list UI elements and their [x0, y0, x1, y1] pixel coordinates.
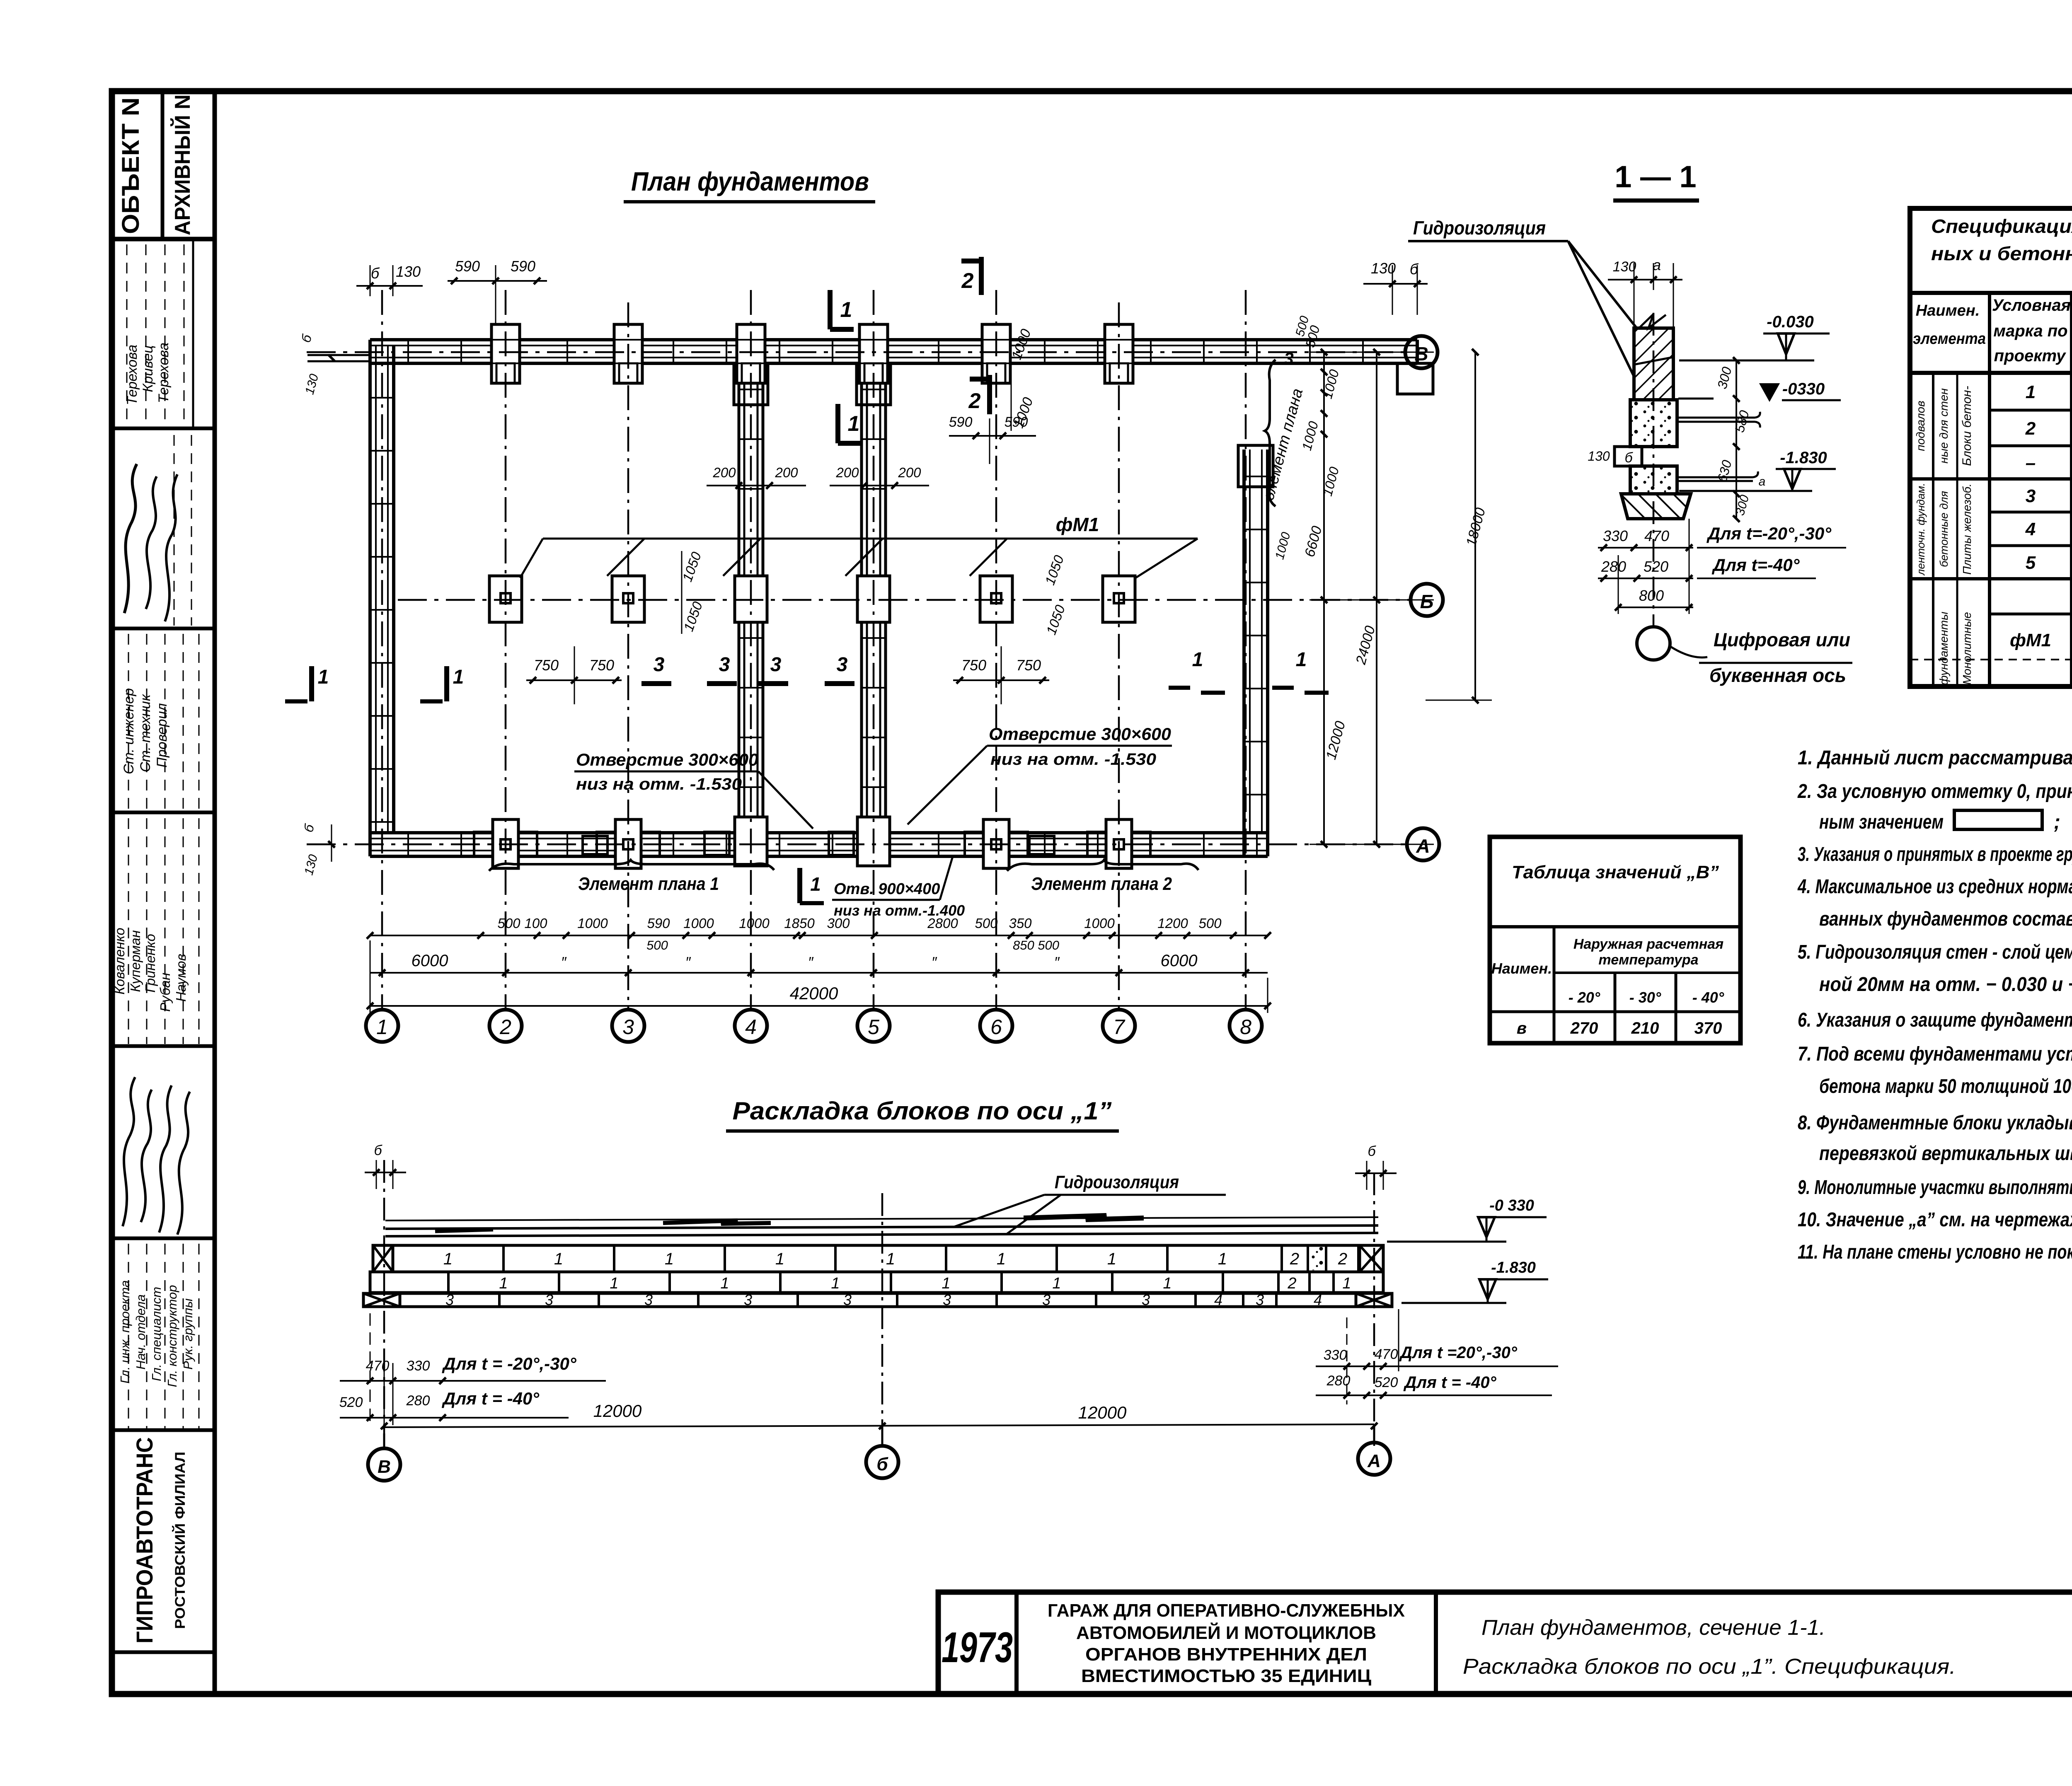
svg-text:1: 1: [1052, 1275, 1061, 1292]
svg-text:3: 3: [1284, 349, 1293, 368]
svg-text:200: 200: [775, 465, 798, 480]
plan wall footing axis B grid 5: [857, 576, 890, 622]
svg-text:520: 520: [1375, 1375, 1398, 1390]
svg-text:;: ;: [2054, 811, 2060, 833]
svg-text:10. Значение „а” см. на черт: 10. Значение „а” см. на чертежах марки А…: [1798, 1209, 2072, 1231]
svg-text:3: 3: [545, 1291, 553, 1308]
svg-text:Отверстие 300×600: Отверстие 300×600: [576, 750, 758, 769]
stamp box signatures names 1: [112, 427, 215, 430]
plan section marks 1-1 left interior: [309, 666, 314, 701]
svg-text:а: а: [1759, 475, 1766, 488]
stamp box handwritten signatures 2: [112, 1237, 215, 1240]
section bottom dim 280 520: [1598, 578, 1693, 579]
plan section mark 1 lower: [835, 404, 840, 443]
svg-text:б: б: [374, 1143, 382, 1158]
svg-text:Раскладка блоков по оси: Раскладка блоков по оси „1”: [733, 1097, 1112, 1125]
section wall break mark: [1639, 314, 1666, 328]
svg-text:марка по: марка по: [1993, 322, 2067, 340]
svg-text:590: 590: [511, 258, 535, 275]
svg-text:бетона марки 50 толщиной 1: бетона марки 50 толщиной 100мм;: [1819, 1075, 2072, 1097]
svg-text:4: 4: [1314, 1291, 1322, 1308]
svg-text:- 40°: - 40°: [1692, 989, 1724, 1006]
svg-text:Терехова: Терехова: [124, 345, 140, 405]
svg-text:330: 330: [407, 1358, 430, 1374]
elevation row3 X-box right: [1356, 1293, 1392, 1307]
stamp box handwritten signatures 1: [112, 627, 215, 631]
elevation row3 slabs: [363, 1293, 1392, 1307]
svg-text:ВМЕСТИМОСТЬЮ 35 ЕДИНИЦ: ВМЕСТИМОСТЬЮ 35 ЕДИНИЦ: [1081, 1666, 1371, 1686]
plan interior wall 5 bottom footing: [857, 817, 890, 866]
plan letter circle A: [1407, 828, 1439, 860]
svg-text:130: 130: [1613, 259, 1636, 275]
plan interior wall 4 top footing: [734, 363, 768, 405]
svg-text:3: 3: [744, 1291, 752, 1308]
svg-text:-0.030: -0.030: [1767, 313, 1813, 331]
svg-text:1: 1: [942, 1275, 950, 1292]
svg-text:1000: 1000: [1084, 916, 1115, 931]
section bottom dim 330 470: [1598, 547, 1693, 549]
svg-text:4: 4: [1214, 1291, 1222, 1308]
elevation circle B: [866, 1446, 898, 1478]
section wall hatched block: [1634, 328, 1673, 400]
svg-text:750: 750: [534, 657, 559, 674]
svg-text:330: 330: [1324, 1347, 1347, 1363]
spec table row lines: [1990, 409, 2072, 412]
plan grid axis dash-dot lines 1-8: [381, 290, 383, 1010]
elevation axis V dashed: [383, 1160, 385, 1446]
svg-text:1: 1: [2026, 382, 2036, 402]
svg-text:1: 1: [997, 1250, 1006, 1268]
svg-text:1: 1: [1342, 1275, 1351, 1292]
svg-text:1000: 1000: [577, 916, 608, 931]
spec table dashed line in fM1 row: [1910, 659, 2072, 660]
title block cell 1973: [1014, 1592, 1019, 1694]
svg-text:500: 500: [646, 938, 668, 952]
plan brace element plana 1: [489, 860, 774, 871]
svg-text:1: 1: [376, 1015, 388, 1039]
svg-text:В: В: [1414, 343, 1428, 365]
svg-text:б: б: [371, 265, 380, 282]
plan grid circles 1-8: [366, 1010, 398, 1042]
svg-text:ным значением: ным значением: [1819, 811, 1944, 833]
plan corner protrusion left of axis V: [307, 354, 370, 356]
svg-text:3: 3: [1042, 1291, 1051, 1308]
section axis line: [1653, 313, 1655, 626]
elevation row1 blocks: [373, 1245, 1383, 1272]
stamp box role labels 1: [112, 811, 215, 814]
plan letter circle B: [1411, 584, 1443, 616]
svg-text:1: 1: [443, 1250, 453, 1268]
svg-text:2: 2: [499, 1015, 511, 1039]
plan letter circle V: [1405, 336, 1438, 368]
svg-text:Таблица значений „В”: Таблица значений „В”: [1512, 862, 1719, 882]
svg-text:520: 520: [1644, 558, 1668, 575]
svg-text:2: 2: [1287, 1275, 1296, 1292]
svg-text:Для t = -40°: Для t = -40°: [1403, 1373, 1496, 1392]
plan brace element plana 3 vertical: [1265, 360, 1276, 506]
svg-text:Раскладка блоков по оси „1”: Раскладка блоков по оси „1”. Спецификаци…: [1463, 1655, 1956, 1679]
svg-text:1: 1: [840, 298, 852, 322]
plan left wall along axis 1: [368, 340, 372, 856]
svg-text:элемента: элемента: [1913, 330, 1986, 348]
svg-text:3: 3: [837, 654, 848, 676]
svg-text:3: 3: [1256, 1291, 1264, 1308]
svg-text:Наружная расчетная: Наружная расчетная: [1573, 936, 1723, 952]
svg-text:280: 280: [406, 1393, 430, 1409]
svg-text:АВТОМОБИЛЕЙ И МОТОЦИКЛОВ: АВТОМОБИЛЕЙ И МОТОЦИКЛОВ: [1076, 1622, 1376, 1643]
svg-text:750: 750: [1016, 657, 1041, 674]
svg-text:подвалов: подвалов: [1914, 401, 1927, 451]
svg-text:350: 350: [1009, 916, 1032, 931]
svg-text:270: 270: [1570, 1019, 1598, 1037]
svg-text:370: 370: [1694, 1019, 1722, 1037]
section rebar hooks lower: [1677, 476, 1753, 479]
elevation row1 right small blocks: [1280, 1245, 1283, 1272]
table B values outer: [1490, 837, 1740, 1043]
svg-text:Плиты железоб.: Плиты железоб.: [1961, 483, 1973, 575]
svg-text:3: 3: [943, 1291, 951, 1308]
svg-text:Условная: Условная: [1992, 296, 2071, 314]
svg-text:2800: 2800: [927, 916, 958, 931]
section footing trapezoid: [1621, 494, 1691, 519]
plan dimension chain 42000: [370, 1005, 1268, 1007]
title block project name cell: [1434, 1592, 1438, 1694]
plan dimension chain small values: [370, 935, 1268, 936]
plan interior wall on axis 5: [860, 363, 863, 833]
svg-text:12000: 12000: [593, 1401, 642, 1421]
svg-text:1973: 1973: [942, 1624, 1013, 1672]
svg-text:1850: 1850: [784, 916, 815, 931]
plan footings middle row axis B: [489, 576, 522, 622]
svg-text:Гидроизоляция: Гидроизоляция: [1055, 1172, 1179, 1192]
table B data row: [1490, 1010, 1740, 1013]
svg-text:5: 5: [868, 1015, 879, 1039]
svg-text:590: 590: [949, 414, 973, 430]
svg-text:б: б: [1624, 450, 1633, 466]
svg-text:590: 590: [647, 916, 670, 931]
svg-text:Гриненко: Гриненко: [143, 934, 158, 993]
section rebar hooks upper: [1677, 417, 1755, 419]
plan letter axis B line: [398, 599, 1411, 601]
svg-text:520: 520: [339, 1394, 363, 1410]
svg-text:- 30°: - 30°: [1629, 989, 1661, 1006]
svg-text:Куперман: Куперман: [128, 930, 143, 992]
section right dim chain: [1736, 360, 1737, 519]
svg-text:Гл. специалист: Гл. специалист: [149, 1287, 164, 1381]
plan section mark 2 lower: [987, 375, 992, 414]
svg-text:Для t=-20°,-30°: Для t=-20°,-30°: [1706, 524, 1832, 543]
svg-text:2: 2: [2025, 418, 2036, 439]
plan section mark 1 below bottom wall: [797, 868, 802, 903]
svg-text:бетонные для: бетонные для: [1938, 491, 1950, 567]
svg-text:″: ″: [561, 954, 567, 971]
svg-text:9. Монолитные участки выполн: 9. Монолитные участки выполнять из бетон…: [1798, 1177, 2072, 1199]
svg-text:Наумов: Наумов: [173, 954, 189, 1002]
svg-text:1: 1: [848, 412, 860, 436]
svg-text:Цифровая или: Цифровая или: [1714, 629, 1850, 650]
svg-text:3: 3: [622, 1015, 634, 1039]
elevation dim 12000 left span: [384, 1424, 1374, 1427]
svg-text:Элемент плана 1: Элемент плана 1: [578, 874, 719, 894]
svg-text:500: 500: [497, 916, 520, 931]
svg-text:8. Фундаментные блоки уклады: 8. Фундаментные блоки укладываются на сл…: [1798, 1112, 2072, 1134]
svg-text:фМ1: фМ1: [1056, 514, 1099, 535]
svg-text:3. Указания о принятых в п: 3. Указания о принятых в проекте грунтов…: [1798, 843, 2072, 865]
svg-text:6000: 6000: [411, 952, 448, 970]
svg-text:ГАРАЖ ДЛЯ ОПЕРАТИВНО-СЛУЖЕБН: ГАРАЖ ДЛЯ ОПЕРАТИВНО-СЛУЖЕБНЫХ: [1048, 1600, 1405, 1621]
plan right wall along axis 8: [1242, 450, 1246, 856]
svg-text:Наимен.: Наимен.: [1916, 302, 1980, 319]
stamp column right edge: [213, 91, 217, 1694]
svg-text:″: ″: [685, 954, 691, 971]
svg-text:11. На плане стены условно: 11. На плане стены условно не показаны.: [1798, 1241, 2072, 1263]
svg-text:Элемент плана 2: Элемент плана 2: [1031, 874, 1172, 894]
spec table header grid: [1910, 291, 2072, 295]
svg-text:4. Максимальное из средних: 4. Максимальное из средних нормативных д…: [1797, 876, 2072, 898]
svg-text:б: б: [876, 1454, 888, 1474]
svg-text:ванных фундаментов составляе: ванных фундаментов составляет 1.8 кг/см …: [1819, 908, 2072, 930]
plan right wall block joints: [1244, 476, 1268, 477]
svg-text:3: 3: [2026, 486, 2036, 506]
plan brace element plana 2: [1007, 860, 1198, 871]
svg-text:3: 3: [445, 1291, 454, 1308]
plan interior wall on axis 4: [738, 363, 741, 833]
svg-text:1: 1: [886, 1250, 895, 1268]
svg-text:Гл. инж. проекта: Гл. инж. проекта: [118, 1280, 132, 1384]
spec table outer box: [1910, 208, 2072, 686]
svg-text:низ на отм. -1.530: низ на отм. -1.530: [990, 750, 1156, 769]
svg-text:ленточн. фундам.: ленточн. фундам.: [1915, 483, 1927, 576]
plan section mark 2 upper: [979, 257, 984, 295]
svg-text:Терехова: Терехова: [156, 343, 172, 403]
svg-text:ные для стен: ные для стен: [1937, 388, 1950, 464]
svg-text:2: 2: [961, 269, 974, 293]
plan wall footing axis B grid 4: [735, 576, 767, 622]
svg-text:1: 1: [831, 1275, 840, 1292]
svg-text:Наимен.: Наимен.: [1491, 960, 1552, 977]
svg-text:6000: 6000: [1161, 952, 1198, 970]
svg-text:РОСТОВСКИЙ ФИЛИАЛ: РОСТОВСКИЙ ФИЛИАЛ: [172, 1452, 188, 1629]
plan bottom wall block joints: [407, 833, 409, 856]
svg-text:ных и бетонных элементов н: ных и бетонных элементов на монтажную сх…: [1931, 243, 2072, 264]
plan top wall block joints: [407, 340, 409, 363]
svg-text:7: 7: [1113, 1015, 1126, 1039]
svg-text:План фундаментов, сечение 1-: План фундаментов, сечение 1-1.: [1481, 1616, 1825, 1640]
title block outer: [938, 1592, 2072, 1694]
section small block b: [1615, 447, 1642, 466]
svg-text:470: 470: [1375, 1346, 1398, 1362]
svg-text:Для t = -40°: Для t = -40°: [442, 1389, 540, 1408]
svg-text:5. Гидроизоляция стен - слой: 5. Гидроизоляция стен - слой цементно-пе…: [1798, 941, 2072, 963]
plan bottom footing grid 3 extra blocks: [583, 836, 608, 854]
svg-text:А: А: [1416, 835, 1430, 857]
svg-text:1 — 1: 1 — 1: [1615, 160, 1696, 194]
elevation circle A: [1358, 1443, 1390, 1475]
svg-text:-0 330: -0 330: [1489, 1197, 1534, 1214]
svg-text:470: 470: [1644, 527, 1669, 544]
section concrete block 1: [1630, 400, 1677, 447]
svg-text:фундаменты: фундаменты: [1937, 611, 1950, 685]
svg-text:3: 3: [770, 654, 782, 676]
plan right dim 24000: [1376, 352, 1377, 844]
plan bottom side blocks at wall 5: [829, 832, 854, 855]
svg-text:-0330: -0330: [1782, 380, 1825, 398]
svg-text:1. Данный лист рассматривать: 1. Данный лист рассматривать совместно с…: [1798, 747, 2072, 769]
svg-text:1: 1: [610, 1275, 618, 1292]
svg-text:АРХИВНЫЙ N: АРХИВНЫЙ N: [170, 94, 195, 235]
svg-text:Для t =20°,-30°: Для t =20°,-30°: [1399, 1344, 1518, 1362]
svg-text:750: 750: [589, 657, 614, 674]
plan footings on bottom wall grids 2-7: [493, 819, 518, 868]
elevation axis A dashed: [1373, 1172, 1375, 1446]
svg-text:1200: 1200: [1157, 916, 1188, 931]
svg-text:6: 6: [990, 1015, 1002, 1039]
svg-text:низ на отм. -1.530: низ на отм. -1.530: [576, 775, 742, 793]
svg-text:в: в: [1517, 1019, 1527, 1037]
svg-text:- 20°: - 20°: [1569, 989, 1600, 1006]
svg-text:200: 200: [835, 465, 859, 480]
plan top wall corner block right: [1397, 363, 1433, 394]
plan letter axis A line: [307, 843, 1407, 846]
elevation row1 X-box left: [373, 1245, 393, 1272]
svg-text:фМ1: фМ1: [2010, 630, 2051, 650]
svg-text:4: 4: [745, 1015, 757, 1039]
elevation hydro smudges: [663, 1220, 771, 1224]
svg-text:Ст. техник: Ст. техник: [138, 694, 153, 772]
spec table col1 group divider: [1932, 373, 1934, 686]
svg-text:б: б: [1368, 1143, 1376, 1159]
stamp box role labels 2: [112, 1428, 215, 1432]
plan fM1 leader line: [543, 538, 1160, 540]
plan bottom footing grid 6 extra blocks: [1029, 836, 1054, 854]
svg-text:280: 280: [1601, 558, 1626, 575]
svg-text:2: 2: [1290, 1250, 1299, 1268]
svg-text:В: В: [378, 1457, 391, 1477]
section concrete block 2: [1630, 466, 1677, 494]
plan top wall along axis V: [370, 338, 1417, 341]
svg-text:Блоки бетон-: Блоки бетон-: [1960, 386, 1974, 466]
plan bottom wall along axis A: [370, 831, 1268, 834]
svg-text:буквенная ось: буквенная ось: [1709, 665, 1846, 686]
svg-text:Б: Б: [1420, 591, 1434, 612]
svg-text:210: 210: [1631, 1019, 1659, 1037]
plan right wall top footing: [1238, 445, 1273, 487]
svg-text:ОРГАНОВ ВНУТРЕННИХ ДЕЛ: ОРГАНОВ ВНУТРЕННИХ ДЕЛ: [1085, 1644, 1367, 1665]
elevation hydro strip lines: [385, 1225, 1378, 1229]
svg-text:500: 500: [975, 916, 998, 931]
svg-text:Гл. конструктор: Гл. конструктор: [165, 1285, 179, 1387]
svg-text:850 500: 850 500: [1013, 938, 1059, 952]
svg-text:1000: 1000: [683, 916, 714, 931]
svg-text:590: 590: [455, 258, 480, 275]
svg-text:1: 1: [1192, 649, 1203, 671]
plan bottom side blocks at wall 4: [704, 832, 729, 855]
svg-text:″: ″: [1054, 954, 1060, 971]
svg-text:300: 300: [827, 916, 850, 931]
svg-text:8: 8: [1240, 1015, 1251, 1039]
svg-text:1: 1: [810, 873, 821, 895]
svg-text:3: 3: [843, 1291, 852, 1308]
svg-text:130: 130: [396, 263, 421, 280]
svg-text:Для t = -20°,-30°: Для t = -20°,-30°: [442, 1354, 577, 1373]
stamp box OBJEKT/ARHIV: [112, 237, 215, 242]
svg-text:200: 200: [898, 465, 921, 480]
svg-text:Отв. 900×400: Отв. 900×400: [834, 880, 940, 898]
section axis circle: [1637, 627, 1670, 660]
elevation row1 X-box right: [1360, 1245, 1383, 1272]
svg-text:500: 500: [1198, 916, 1222, 931]
table B header: [1553, 927, 1556, 1043]
svg-text:–: –: [2026, 453, 2036, 473]
elevation axis B dashed: [881, 1193, 884, 1446]
plan dimension chain 6000: [370, 972, 1268, 974]
svg-text:330: 330: [1603, 527, 1628, 544]
svg-text:″: ″: [808, 954, 814, 971]
svg-text:План фундаментов: План фундаментов: [631, 167, 869, 196]
svg-text:1: 1: [1296, 649, 1307, 671]
svg-text:3: 3: [1142, 1291, 1150, 1308]
svg-text:1: 1: [1107, 1250, 1116, 1268]
svg-text:Ст. инженер: Ст. инженер: [121, 688, 137, 774]
stamp box GIPROAVTOTRANS: [112, 1651, 215, 1654]
svg-text:Кривец: Кривец: [140, 345, 156, 392]
svg-text:-1.830: -1.830: [1491, 1259, 1536, 1276]
svg-text:Коваленко: Коваленко: [112, 928, 127, 994]
svg-text:800: 800: [1639, 587, 1664, 604]
svg-text:Нач. отдела: Нач. отдела: [133, 1294, 148, 1370]
note 2 empty value box: [1954, 810, 2042, 829]
svg-text:5: 5: [2026, 553, 2036, 573]
plan section mark 1 upper: [828, 290, 833, 329]
svg-text:470: 470: [366, 1358, 390, 1374]
svg-text:1: 1: [499, 1275, 508, 1292]
plan left wall block joints: [370, 397, 394, 399]
svg-text:1: 1: [775, 1250, 784, 1268]
svg-text:Гидроизоляция: Гидроизоляция: [1413, 217, 1546, 239]
elevation row3 X-box left: [363, 1293, 400, 1307]
stamp box signatures names 2: [112, 1044, 215, 1048]
svg-text:3: 3: [644, 1291, 653, 1308]
svg-text:Рук. группы: Рук. группы: [181, 1298, 195, 1370]
svg-text:1000: 1000: [739, 916, 770, 931]
svg-text:3: 3: [654, 654, 665, 676]
svg-text:Рубан: Рубан: [157, 973, 173, 1012]
svg-text:ОБЪЕКТ N: ОБЪЕКТ N: [117, 97, 144, 234]
svg-text:Монолитные: Монолитные: [1961, 612, 1973, 685]
svg-text:Проверил: Проверил: [154, 703, 170, 767]
svg-text:2: 2: [968, 389, 981, 413]
elevation circle V: [368, 1448, 400, 1481]
svg-text:Для t=-40°: Для t=-40°: [1712, 555, 1800, 575]
svg-text:2. За условную отметку 0, п: 2. За условную отметку 0, принят уровень…: [1797, 781, 2072, 802]
svg-text:Спецификация сборных и моно: Спецификация сборных и монолитных железо…: [1931, 215, 2072, 237]
svg-text:1: 1: [453, 666, 464, 688]
svg-text:1: 1: [665, 1250, 674, 1268]
plan interior wall 5 top footing: [857, 363, 891, 405]
svg-text:ГИПРОАВТОТРАНС: ГИПРОАВТОТРАНС: [131, 1437, 157, 1643]
svg-text:проекту: проекту: [1994, 347, 2066, 365]
svg-text:2: 2: [1338, 1250, 1347, 1268]
plan footings on top wall grids 2-7: [491, 324, 520, 383]
svg-text:42000: 42000: [790, 984, 838, 1003]
svg-text:4: 4: [2025, 519, 2036, 539]
plan letter axis V line: [307, 351, 1405, 353]
section bottom dim 800: [1618, 607, 1693, 608]
svg-text:6. Указания о защите фундам: 6. Указания о защите фундаментов от корр…: [1798, 1009, 2072, 1031]
svg-text:750: 750: [961, 657, 986, 674]
plan right dim chain 500-1000-6600: [1323, 352, 1325, 844]
svg-text:″: ″: [932, 954, 937, 971]
